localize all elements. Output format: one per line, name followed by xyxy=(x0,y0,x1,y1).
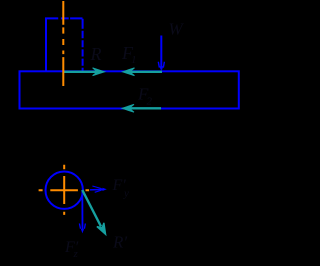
block top edge (dashed) xyxy=(45,17,83,19)
svg-text:2: 2 xyxy=(147,96,153,108)
arrow W (blue, pointing down) xyxy=(158,36,164,71)
arrow F2 (teal, pointing left along slab bottom) xyxy=(122,104,161,112)
svg-text:y: y xyxy=(123,188,129,200)
svg-text:1: 1 xyxy=(131,54,137,66)
block centerline (orange dash-dot) xyxy=(62,1,64,86)
svg-text:W: W xyxy=(169,19,185,38)
block right edge (dashed) xyxy=(82,19,84,71)
svg-text:z: z xyxy=(73,248,79,260)
circle vertical centerline (orange) xyxy=(63,165,65,215)
circle horizontal centerline (orange) xyxy=(39,189,90,191)
arrow F1 (teal, pointing left along slab top) xyxy=(123,68,163,76)
arrow F'z (blue, pointing down) xyxy=(79,190,85,233)
arrow R' (teal resultant, pointing down-right) xyxy=(82,190,105,234)
svg-text:R′: R′ xyxy=(112,233,127,252)
block left edge (solid) xyxy=(45,18,47,71)
arrow F'y (blue, pointing right) xyxy=(90,186,107,192)
circle (end view) xyxy=(45,172,82,209)
slab rectangle xyxy=(20,71,239,108)
svg-text:R: R xyxy=(90,44,102,64)
arrow R (teal, pointing right along slab top) xyxy=(64,68,105,76)
